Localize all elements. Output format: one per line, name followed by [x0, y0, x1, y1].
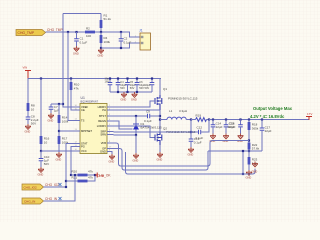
- resistor R8 input filter: [27, 79, 35, 118]
- resistor R18 divider top: [248, 120, 259, 143]
- pin TS: [74, 119, 85, 123]
- resistor R16 VCC filter: [40, 79, 50, 152]
- ground for IC: [109, 154, 115, 159]
- wire battery gnd long net: [126, 152, 256, 174]
- svg-text:GND: GND: [121, 98, 127, 102]
- wire SRP: [114, 131, 192, 133]
- node divider mid junction: [248, 150, 250, 152]
- node SRP junction: [190, 131, 192, 133]
- wire tap down to battery net: [242, 151, 244, 174]
- port CHG_IN: [22, 198, 44, 204]
- capacitor C13 sense to gnd: [189, 132, 202, 147]
- svg-text:0.1µF: 0.1µF: [80, 41, 88, 45]
- svg-text:TS: TS: [81, 119, 85, 123]
- pin OP: [102, 147, 113, 151]
- pin PH: [102, 108, 113, 112]
- capacitor C17 feedforward: [260, 120, 272, 152]
- node VIN R8 junction: [40, 77, 42, 79]
- svg-text:0.1µF: 0.1µF: [144, 119, 152, 123]
- svg-text:C12: C12: [197, 126, 203, 130]
- pin SRN: [100, 133, 113, 137]
- svg-text:4.2V * 4= 16.8Vdc: 4.2V * 4= 16.8Vdc: [250, 114, 285, 119]
- svg-text:GND: GND: [188, 153, 194, 157]
- node C5 top: [126, 77, 128, 79]
- svg-text:VCC: VCC: [81, 149, 87, 153]
- svg-text:GND: GND: [246, 176, 252, 180]
- wire REGN: [114, 121, 133, 129]
- power port pullup: [95, 173, 97, 178]
- node C4 top: [117, 77, 119, 79]
- capacitor C5 input: [125, 79, 136, 93]
- node C6 top: [136, 77, 138, 79]
- svg-text:GND: GND: [56, 158, 62, 162]
- capacitor C1: [74, 32, 87, 46]
- ground input caps right: [132, 92, 138, 97]
- svg-text:PH: PH: [102, 108, 106, 112]
- node C3 top: [109, 77, 111, 79]
- ground for C10: [38, 167, 44, 172]
- pin VCC: [74, 149, 87, 153]
- resistor R20: [71, 170, 95, 177]
- svg-text:SRN: SRN: [100, 133, 106, 137]
- svg-text:GND: GND: [73, 52, 79, 56]
- capacitor C3 input: [105, 77, 113, 93]
- pin PG: [74, 145, 85, 149]
- node C16 out junction: [239, 118, 241, 120]
- capacitor C11 input: [145, 79, 155, 93]
- wire HIDRV to Q1 gate: [114, 101, 156, 107]
- svg-text:U1: U1: [81, 96, 85, 100]
- resistor R19 sense: [191, 114, 209, 122]
- svg-text:CHG_IO2: CHG_IO2: [24, 186, 38, 190]
- node MPPSET divider top junction: [58, 103, 60, 105]
- pin STAT: [74, 142, 88, 146]
- no-ERC marker CHG_IN: [59, 197, 62, 201]
- wire STAT from IC: [66, 144, 74, 188]
- svg-text:51.1k: 51.1k: [104, 17, 112, 21]
- svg-text:22µF: 22µF: [228, 125, 235, 129]
- svg-text:57.6k: 57.6k: [252, 147, 260, 151]
- node bottom rail C5: [126, 91, 128, 93]
- svg-text:100k: 100k: [104, 40, 111, 44]
- svg-text:CHG_IN: CHG_IN: [24, 200, 35, 204]
- svg-text:GND: GND: [98, 54, 104, 58]
- svg-text:CE: CE: [81, 108, 85, 112]
- node C1 junction: [75, 31, 77, 33]
- capacitor C14 output: [211, 120, 223, 134]
- svg-text:VIN: VIN: [23, 66, 28, 70]
- svg-text:L1: L1: [169, 109, 173, 113]
- svg-text:47k: 47k: [74, 87, 79, 91]
- wire SRN to diode node: [114, 134, 137, 136]
- svg-text:17V: 17V: [307, 112, 312, 116]
- capacitor C12 sense filter: [191, 120, 209, 141]
- node C14 out junction: [212, 118, 214, 120]
- ground for C16: [238, 134, 244, 139]
- svg-text:PG: PG: [81, 145, 85, 149]
- node VFB junction: [248, 139, 250, 141]
- svg-text:REGN: REGN: [98, 119, 106, 123]
- transistor Q1: [155, 79, 198, 111]
- node C11 top: [151, 77, 153, 79]
- svg-text:GND: GND: [133, 159, 139, 163]
- resistor R23 divider bottom: [248, 157, 258, 170]
- svg-text:PSMN015-30YLC,115: PSMN015-30YLC,115: [168, 97, 198, 101]
- wire divider tap: [208, 150, 262, 152]
- ground for R23: [246, 170, 252, 175]
- pin REGN: [98, 119, 113, 123]
- ground for REGN branch: [135, 135, 137, 153]
- svg-text:10: 10: [31, 108, 35, 112]
- ground for R17: [56, 152, 62, 157]
- svg-text:GND: GND: [109, 160, 115, 164]
- svg-text:GND: GND: [237, 139, 243, 143]
- node VREF bypass junction: [62, 103, 64, 105]
- node PG pullup junction: [70, 174, 72, 176]
- node VCC junction: [40, 150, 42, 152]
- wire TS rail y=32: [46, 31, 86, 33]
- wire VFB from IC: [114, 141, 250, 167]
- svg-text:R20: R20: [72, 170, 78, 174]
- wire VIN rail y=78.5: [28, 78, 161, 80]
- wire BTST: [114, 115, 148, 117]
- node bottom rail C6: [136, 91, 138, 93]
- svg-text:VFB: VFB: [101, 141, 106, 145]
- svg-text:R19: R19: [196, 114, 202, 118]
- svg-text:0.1µF: 0.1µF: [124, 41, 132, 45]
- ground for R4: [98, 48, 104, 53]
- wire VREF bypass: [51, 103, 63, 105]
- svg-text:22µF: 22µF: [216, 125, 223, 129]
- capacitor C10: [39, 151, 50, 167]
- svg-text:CHG_TMP: CHG_TMP: [18, 31, 35, 35]
- node R19 left junction: [190, 118, 192, 120]
- node C2 top junction: [120, 31, 122, 33]
- wire TS rail right of R2: [95, 32, 141, 37]
- svg-text:GND: GND: [25, 130, 31, 134]
- wire phase vertical: [159, 110, 161, 133]
- wire VREF loop top: [63, 13, 101, 15]
- svg-text:R21: R21: [72, 176, 78, 180]
- svg-text:MPPSET: MPPSET: [81, 129, 92, 133]
- svg-text:BQ24650RVAT: BQ24650RVAT: [81, 100, 99, 104]
- svg-text:Q1: Q1: [163, 87, 167, 91]
- wire MPPSET to IC: [59, 130, 74, 132]
- node phase BTST junction: [159, 115, 161, 117]
- svg-text:GND: GND: [48, 119, 54, 123]
- wire PH to phase node: [114, 109, 161, 111]
- pin VREF: [74, 105, 89, 109]
- pin CE: [74, 108, 85, 112]
- node divider top junction: [248, 118, 250, 120]
- diode D1: [133, 116, 162, 135]
- svg-text:50V: 50V: [145, 86, 150, 90]
- no-ERC marker CHG_IO2: [59, 183, 62, 187]
- capacitor C4 input: [116, 79, 127, 93]
- svg-text:CHG_TMP: CHG_TMP: [47, 28, 63, 32]
- resistor R17: [58, 136, 69, 152]
- node tap junction: [242, 150, 244, 152]
- wire CHG_IN: [44, 175, 76, 201]
- svg-text:C9: C9: [146, 110, 150, 114]
- svg-text:R2: R2: [86, 27, 90, 31]
- wire VREF vertical: [63, 14, 74, 108]
- svg-text:16V: 16V: [105, 80, 110, 84]
- node C15 out junction: [225, 118, 227, 120]
- node MPPSET junction: [58, 130, 60, 132]
- svg-text:GND: GND: [100, 150, 106, 154]
- pin HIDRV: [98, 105, 114, 109]
- connector J1: [135, 29, 151, 51]
- capacitor C8: [26, 115, 39, 126]
- capacitor C9 bootstrap: [144, 110, 160, 124]
- svg-text:3.3µH: 3.3µH: [179, 109, 187, 113]
- svg-text:BTST: BTST: [99, 114, 106, 118]
- svg-text:10: 10: [44, 141, 48, 145]
- resistor R1: [100, 14, 112, 33]
- transistor Q2: [155, 127, 196, 146]
- wire TS bottom return: [101, 43, 141, 48]
- svg-text:47k: 47k: [88, 176, 93, 180]
- svg-text:50V: 50V: [139, 86, 144, 90]
- ground input caps left: [121, 92, 127, 97]
- pin VFB: [101, 141, 114, 145]
- wire SRP to R19 left: [190, 120, 192, 133]
- capacitor C6 input: [135, 79, 146, 93]
- svg-text:22µF: 22µF: [265, 129, 272, 133]
- node R4 bottom junction: [100, 47, 102, 49]
- node R19 right junction: [208, 118, 210, 120]
- svg-text:50V: 50V: [120, 86, 125, 90]
- pin MPPSET: [74, 129, 93, 133]
- pin BTST: [99, 114, 113, 118]
- resistor R10 CE pull-up: [70, 79, 80, 111]
- svg-text:GND: GND: [131, 98, 137, 102]
- node STAT R21 junction: [65, 180, 67, 182]
- svg-text:CHG_IO2: CHG_IO2: [45, 183, 59, 187]
- svg-text:50V: 50V: [31, 122, 36, 126]
- wire CHG_IO2: [44, 186, 67, 188]
- resistor R21: [66, 175, 95, 182]
- svg-text:CIB: CIB: [99, 174, 104, 178]
- svg-text:0.1µF: 0.1µF: [194, 141, 202, 145]
- node bottom rail C4: [117, 91, 119, 93]
- node REGN diode junction: [135, 134, 137, 136]
- pin SRP: [100, 130, 113, 134]
- wire LODRV to Q2 gate: [114, 126, 156, 138]
- port CHG_IO2: [22, 184, 44, 190]
- ground battery net: [252, 162, 258, 167]
- svg-text:50V: 50V: [44, 162, 49, 166]
- svg-text:1µF: 1µF: [54, 109, 59, 113]
- capacitor C16 output: [228, 120, 243, 134]
- wire VCC to IC: [41, 150, 74, 152]
- op-amp U1 charge controller: [80, 96, 107, 154]
- port CHG_TMP: [16, 30, 46, 36]
- node CHG_IO2 junction: [65, 186, 67, 188]
- ground for C15: [223, 134, 229, 139]
- pin LODRV: [97, 124, 114, 128]
- svg-text:CHG_IN: CHG_IN: [45, 197, 58, 201]
- svg-text:100: 100: [86, 34, 91, 38]
- svg-text:47k: 47k: [88, 170, 93, 174]
- inductor L1: [160, 109, 191, 120]
- resistor R22 divider mid: [248, 143, 260, 158]
- capacitor C2: [119, 32, 132, 48]
- node VIN CE junction: [70, 77, 72, 79]
- node battery net junction: [242, 173, 244, 175]
- svg-text:GND: GND: [38, 173, 44, 177]
- node phase L1 junction: [159, 118, 161, 120]
- svg-text:GND: GND: [223, 139, 229, 143]
- resistor R2: [85, 27, 95, 38]
- capacitor C7: [49, 104, 59, 113]
- node CHG_IN junction: [74, 174, 76, 176]
- svg-text:100k: 100k: [62, 120, 69, 124]
- svg-text:50V: 50V: [130, 86, 135, 90]
- wire input caps bottom rail: [110, 91, 152, 93]
- svg-text:Output Voltage Max: Output Voltage Max: [253, 106, 293, 111]
- power port VIN: [23, 66, 32, 79]
- ground for Q2 source: [159, 145, 161, 152]
- ground for C7: [48, 113, 54, 118]
- node TS junction: [67, 31, 69, 33]
- wire nested mid to divider tap: [114, 149, 209, 171]
- wire PG from IC: [71, 147, 74, 176]
- svg-text:GND: GND: [157, 158, 163, 162]
- wire TS to IC: [68, 32, 74, 121]
- svg-text:LODRV: LODRV: [97, 124, 106, 128]
- ground for C13: [188, 147, 194, 152]
- capacitor C15 output: [224, 120, 236, 134]
- pin GND: [100, 150, 112, 154]
- svg-text:365k: 365k: [252, 127, 259, 131]
- node C2 bottom junction: [120, 47, 122, 49]
- svg-text:GND: GND: [252, 170, 258, 174]
- ground for C14: [210, 134, 216, 139]
- ground for C8: [25, 124, 31, 129]
- node pullup merge junction: [94, 174, 96, 176]
- power port output: [306, 112, 312, 120]
- wire output rail: [209, 117, 309, 120]
- node C17 top junction: [261, 118, 263, 120]
- node R1/R4 junction: [100, 31, 102, 33]
- svg-text:J1: J1: [139, 29, 143, 33]
- resistor R4: [100, 32, 111, 48]
- resistor R14: [58, 104, 69, 136]
- ground for C1: [74, 46, 80, 51]
- node BTST diode junction: [135, 115, 137, 117]
